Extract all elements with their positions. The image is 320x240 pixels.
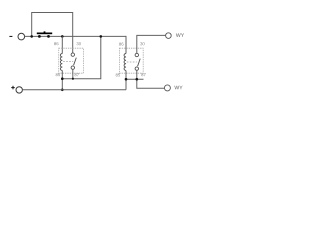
wire plus bus <box>22 89 126 91</box>
relay K1 blade <box>74 58 77 66</box>
node junction bus pin87 <box>72 78 74 80</box>
node junction bus pin85 <box>61 77 64 80</box>
svg-text:85: 85 <box>56 72 61 77</box>
svg-text:86: 86 <box>54 41 59 46</box>
wire loop to relay1 pin30 <box>32 13 73 53</box>
wire relay2 pin87 down <box>137 70 164 88</box>
relay K1 link dashed <box>63 60 73 62</box>
wire hold bus <box>62 36 101 78</box>
node minus label <box>9 36 12 37</box>
terminal plus <box>16 87 22 93</box>
wire main minus bus <box>25 35 126 37</box>
wire relay2 bottom link <box>126 78 144 80</box>
terminal WY2 <box>164 85 170 91</box>
relay K2 contact lower <box>135 67 138 70</box>
node junction relay2 pin87 <box>136 78 139 81</box>
relay K1 box <box>59 48 84 73</box>
wire relay1 pin87 <box>72 69 74 78</box>
terminal WY1 <box>166 33 172 39</box>
svg-text:WY: WY <box>174 85 183 91</box>
svg-text:86: 86 <box>119 41 124 46</box>
relay K2 link dashed <box>127 61 137 63</box>
terminal minus <box>18 33 25 40</box>
svg-text:30: 30 <box>140 41 145 46</box>
svg-text:87: 87 <box>141 72 146 77</box>
relay K2 box <box>119 48 143 73</box>
svg-text:WY: WY <box>176 33 185 39</box>
node junction plus pin85 <box>61 89 64 92</box>
wire relay2 coil to pin85 <box>125 71 127 90</box>
wire relay1 pin86 down <box>61 36 63 53</box>
wire relay2 pin86 down <box>125 36 127 54</box>
svg-text:87: 87 <box>74 72 79 77</box>
relay K2 contact fixed <box>135 53 138 56</box>
node junction relay1 pin86 <box>61 35 64 38</box>
relay K1 coil <box>60 54 62 71</box>
node junction relay2 pin85 <box>125 78 128 81</box>
relay K1 contact fixed <box>71 53 74 56</box>
node junction main drop <box>100 35 103 38</box>
node junction loop <box>30 35 33 38</box>
relay K2 blade <box>138 59 141 67</box>
switch S1 pushbutton <box>37 31 52 37</box>
svg-text:85: 85 <box>116 72 121 77</box>
node plus label <box>11 87 14 88</box>
relay K2 coil <box>124 54 126 71</box>
wire relay1 coil to pin85 <box>61 71 63 90</box>
wire relay2 pin30 up to WY <box>137 35 166 53</box>
svg-text:30: 30 <box>76 41 81 46</box>
relay K1 contact lower <box>71 66 74 69</box>
